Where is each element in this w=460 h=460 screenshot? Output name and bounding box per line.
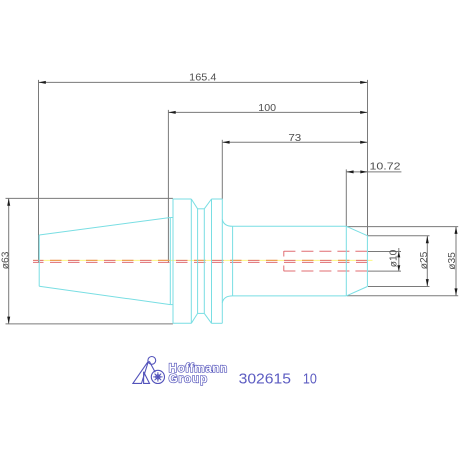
svg-text:165.4: 165.4 <box>189 72 216 84</box>
svg-text:302615: 302615 <box>239 372 291 388</box>
svg-text:ø25: ø25 <box>418 252 430 270</box>
svg-text:Group: Group <box>169 372 208 385</box>
svg-text:ø10: ø10 <box>387 250 399 268</box>
svg-text:ø63: ø63 <box>0 251 12 269</box>
svg-text:73: 73 <box>288 132 301 144</box>
svg-text:100: 100 <box>258 102 276 114</box>
svg-text:ø35: ø35 <box>446 252 458 270</box>
svg-text:10: 10 <box>303 372 317 388</box>
svg-text:10.72: 10.72 <box>370 161 401 173</box>
